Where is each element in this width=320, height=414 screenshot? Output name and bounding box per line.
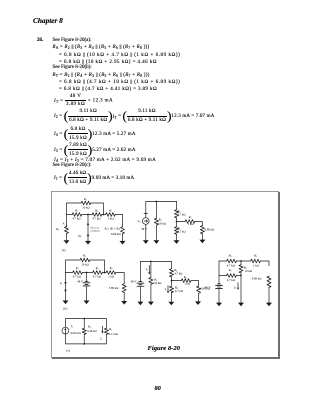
svg-text:A: A (62, 221, 65, 225)
svg-text:4.7 kΩ: 4.7 kΩ (174, 271, 182, 275)
svg-text:VS: VS (137, 219, 140, 224)
svg-text:1 kΩ: 1 kΩ (108, 274, 114, 278)
ground battery (row2-middle) (137, 302, 143, 306)
svg-text:R2: R2 (55, 227, 59, 232)
ground mid (row2-right) (238, 303, 244, 307)
arrowheads on middle branch (circuit a) (87, 224, 90, 227)
svg-text:R5: R5 (95, 266, 99, 271)
resistor R6 4.7 kOhm lower (circuit b) (176, 222, 178, 241)
svg-text:R1: R1 (75, 266, 79, 271)
node: tap junction (row2-middle) (171, 280, 173, 282)
svg-text:4.7 kΩ: 4.7 kΩ (72, 216, 80, 220)
svg-text:10 kΩ: 10 kΩ (245, 269, 253, 273)
ground under R2 (circuit b) (153, 240, 159, 244)
resistor RA 4.46 kOhm (circuit c) (83, 319, 85, 344)
ground under right branch (circuit a) (120, 241, 126, 245)
svg-text:4.46 kΩ: 4.46 kΩ (87, 329, 97, 333)
wire: mid branch down with IT arrow (row2-right) (240, 276, 242, 303)
svg-text:R1: R1 (74, 208, 78, 213)
svg-text:IT: IT (59, 281, 63, 286)
resistor R1 4.7 kOhm (circuit row2-left) (73, 271, 83, 275)
wire: upper branch (circuit row2-left) (66, 260, 105, 273)
figure caption (148, 346, 180, 351)
resistor R2 (left vertical, circuit a) (66, 215, 68, 241)
resistor R7 1 kOhm (rail right, circuit a) (106, 213, 116, 217)
problem number (37, 38, 43, 43)
svg-text:6.89 kΩ: 6.89 kΩ (205, 227, 215, 231)
svg-text:6.89 kΩ: 6.89 kΩ (111, 232, 121, 236)
ground battery (row2-right) (216, 303, 222, 307)
node: tap junction (circuit b) (176, 221, 178, 223)
battery 48 V (left branch, row2-right) (218, 261, 220, 284)
resistor R7 1 kOhm (circuit row2-left) (106, 271, 116, 275)
node: junction rail/upper branch (circuit a) (103, 214, 105, 216)
svg-text:1 kΩ: 1 kΩ (253, 264, 259, 268)
svg-text:48 V: 48 V (131, 279, 138, 283)
resistor R1 4.7 kOhm (second rail, row2-right) (227, 274, 237, 278)
svg-text:4.7 kΩ: 4.7 kΩ (227, 264, 235, 268)
svg-text:R5: R5 (253, 254, 257, 259)
svg-text:R6 || (R7 + R8): R6 || (R7 + R8) (104, 228, 120, 232)
svg-text:1 kΩ: 1 kΩ (108, 216, 114, 220)
node: top of RA branch (circuit c) (83, 318, 85, 320)
wire: top rail (circuit b) (146, 201, 177, 203)
I_3 line (54, 143, 136, 158)
battery 48 V (left branch, row2-middle) (139, 262, 141, 282)
svg-text:R7: R7 (108, 208, 113, 213)
svg-text:6.8 kΩ: 6.8 kΩ (153, 281, 161, 285)
wire: I2 branch with arrow (row2-middle) (150, 262, 152, 302)
header: Chapter 8 (33, 18, 63, 23)
svg-text:3.89 kΩ: 3.89 kΩ (109, 286, 119, 290)
battery 48 V (middle branch, row2-left) (86, 273, 88, 281)
svg-text:48 V: 48 V (141, 227, 148, 231)
I_2 line (54, 109, 215, 124)
svg-text:(b): (b) (63, 307, 67, 311)
wire: middle branch down (circuit a) (87, 215, 89, 241)
ground right (row2-left) (121, 301, 127, 305)
node: top of I2 branch (row2-middle) (150, 261, 152, 263)
svg-text:(b): (b) (78, 235, 81, 238)
wire: outer loop (circuit c) (65, 319, 106, 344)
svg-text:IT: IT (233, 285, 237, 290)
svg-text:R5: R5 (188, 215, 192, 220)
svg-text:R1: R1 (108, 327, 112, 332)
resistor R3 10 kOhm (top branch, circuit a) (81, 201, 91, 205)
svg-text:48 V: 48 V (77, 279, 84, 283)
svg-text:4.7 kΩ: 4.7 kΩ (175, 289, 183, 293)
svg-text:1 kΩ: 1 kΩ (184, 282, 190, 286)
node: mid junction lower (row2-right) (240, 275, 242, 277)
resistor R2 6.8 kOhm (circuit b) (155, 202, 157, 241)
svg-text:R5: R5 (94, 208, 98, 213)
wire: circuit a upper branch (67, 203, 104, 215)
svg-text:R7: R7 (109, 266, 114, 271)
figure frame box (51, 191, 279, 358)
svg-text:4.7 kΩ: 4.7 kΩ (177, 229, 185, 233)
resistor R1 4.7 kOhm (rail left, circuit a) (72, 213, 82, 217)
svg-text:combined: combined (90, 229, 100, 232)
node: mid junction top (row2-right) (240, 260, 242, 262)
ground under R6 (circuit b) (174, 240, 180, 244)
resistor R6||(R7+R8) 6.89 kOhm (right vertical, circuit a) (122, 234, 124, 241)
svg-text:1 kΩ: 1 kΩ (188, 222, 194, 226)
ground right (row2-right) (266, 303, 272, 307)
svg-text:4.7 kΩ: 4.7 kΩ (93, 274, 101, 278)
svg-text:R1: R1 (228, 268, 232, 273)
svg-text:I1: I1 (99, 337, 102, 342)
wire: circuit a main rail (67, 215, 123, 227)
resistor 3.89 kOhm (right vertical, row2-left) (122, 284, 126, 293)
svg-text:4.7 kΩ: 4.7 kΩ (92, 216, 100, 220)
ground I2 branch (row2-middle) (148, 302, 154, 306)
svg-text:4.7 kΩ: 4.7 kΩ (227, 278, 235, 282)
svg-text:10 kΩ: 10 kΩ (81, 262, 89, 266)
node: bottom of RA branch (circuit c) (83, 343, 85, 345)
svg-text:(c): (c) (66, 348, 70, 352)
resistor R5 1 kOhm horizontal (circuit b) (177, 222, 203, 226)
node: rail/middle junction (row2-left) (86, 272, 88, 274)
resistor R5 4.7 kOhm (rail mid, circuit a) (92, 213, 102, 217)
current arrow I1 (circuit c) (102, 326, 104, 331)
wire: top rail (row2-middle) (140, 261, 171, 263)
svg-text:R3: R3 (228, 254, 232, 259)
ground R6 branch (row2-middle) (168, 302, 174, 306)
node: junction rail/middle branch (circuit a) (87, 214, 89, 216)
svg-text:9.69 mA: 9.69 mA (70, 331, 81, 335)
resistor R5 4.7 kOhm (circuit row2-left) (93, 271, 103, 275)
svg-text:48 V: 48 V (205, 285, 212, 289)
svg-text:I2: I2 (145, 267, 148, 272)
svg-text:IA: IA (70, 324, 74, 329)
wire: left branch with current arrow IT (row2-left) (65, 273, 67, 301)
resistor R3 10 kOhm top (circuit row2-left) (80, 258, 90, 262)
resistor R4 4.7 kOhm upper (row2-middle) (171, 262, 173, 281)
source VS 48V (circle, circuit b) (144, 202, 148, 241)
I_1 line (54, 171, 134, 186)
ground under middle branch (circuit a) (85, 241, 91, 245)
I_4 line (54, 127, 136, 142)
svg-text:4.7 kΩ: 4.7 kΩ (177, 213, 185, 217)
node: rail/upper-branch junction (row2-left) (104, 272, 106, 274)
resistor R3 4.7 kOhm (top left, row2-right) (227, 259, 237, 263)
resistor 6.89 kOhm right (circuit b) (201, 234, 203, 240)
ground 6.89k (row2-middle) (195, 301, 201, 305)
svg-text:R3: R3 (82, 254, 86, 259)
svg-text:9.11 kΩ: 9.11 kΩ (109, 332, 119, 336)
svg-text:10 kΩ: 10 kΩ (82, 206, 90, 210)
resistor 9.11 kOhm (right edge, circuit c) (104, 328, 108, 334)
resistor R4 10 kOhm (mid vertical, row2-right) (240, 261, 242, 276)
resistor 6.89 kOhm (right vertical, row2-right) (267, 276, 271, 287)
resistor R5 1 kOhm (top right, row2-right) (251, 259, 261, 263)
svg-text:4.7 kΩ: 4.7 kΩ (73, 274, 81, 278)
ground under R2 (circuit a) (64, 240, 70, 244)
ground under 6.89k (circuit b) (199, 240, 205, 244)
I_T fraction line (54, 94, 113, 106)
svg-text:R3: R3 (83, 197, 87, 202)
resistor R2 6.8 kOhm (row2-middle) (149, 278, 153, 285)
svg-text:R5: R5 (183, 275, 187, 280)
page number (155, 386, 161, 391)
ground left (row2-left) (63, 301, 69, 305)
resistor R4 4.7 kOhm upper (circuit b) (176, 202, 178, 222)
node: top of R2 branch (circuit b) (156, 201, 158, 203)
current source IA 9.69 mA (circle, circuit c) (62, 327, 69, 334)
svg-text:6.8 kΩ: 6.8 kΩ (158, 221, 166, 225)
resistor 6.89 kOhm right (row2-middle) (197, 286, 201, 293)
wire: top rail (row2-right) (219, 261, 269, 266)
wire: main rail (circuit row2-left) (66, 273, 125, 284)
resistor R6 4.7 kOhm lower with I3 arrow (row2-middle) (171, 281, 173, 302)
svg-text:I3: I3 (164, 287, 167, 292)
ground under source (circuit b) (143, 240, 149, 244)
wire: second rail (row2-right) (219, 275, 241, 277)
svg-text:(a): (a) (62, 248, 66, 252)
ground middle (row2-left) (84, 301, 90, 305)
resistor R5 1 kOhm horizontal (row2-middle) (172, 281, 199, 286)
svg-text:6.89 kΩ: 6.89 kΩ (252, 276, 262, 280)
